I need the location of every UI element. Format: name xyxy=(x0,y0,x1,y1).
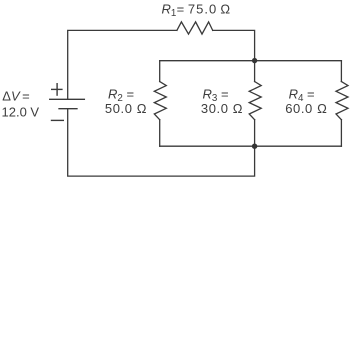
svg-text:ΔV=: ΔV= xyxy=(2,88,29,103)
wire parallel box bottom rail xyxy=(160,145,342,147)
wire R4 branch lower lead xyxy=(340,120,342,147)
svg-text:60.0 Ω: 60.0 Ω xyxy=(285,101,327,116)
wire R2 branch lower lead xyxy=(159,120,161,147)
battery V long plate xyxy=(50,98,85,100)
battery minus sign xyxy=(52,119,64,121)
node A junction dot xyxy=(252,58,257,63)
resistor R4 xyxy=(336,82,348,120)
wire from node B down and back to battery xyxy=(68,109,255,176)
resistor R3 xyxy=(249,82,261,120)
battery V short plate xyxy=(59,108,77,110)
wire R4 branch upper lead xyxy=(340,61,342,82)
svg-text:30.0 Ω: 30.0 Ω xyxy=(201,101,243,116)
resistor R2 xyxy=(154,82,166,120)
wire R2 branch upper lead xyxy=(159,61,161,82)
resistor R1 xyxy=(177,22,213,34)
wire R3 branch lower lead xyxy=(254,120,256,147)
wire parallel box top rail xyxy=(160,60,342,62)
svg-text:R1=75.0Ω: R1=75.0Ω xyxy=(162,2,231,20)
svg-text:50.0 Ω: 50.0 Ω xyxy=(105,101,147,116)
wire top from battery to R1 xyxy=(68,30,177,99)
wire from R1 down to node A xyxy=(213,30,255,60)
svg-text:12.0 V: 12.0 V xyxy=(2,104,40,119)
node B junction dot xyxy=(252,144,257,149)
wire R3 branch upper lead xyxy=(254,61,256,82)
battery plus sign xyxy=(52,84,62,95)
